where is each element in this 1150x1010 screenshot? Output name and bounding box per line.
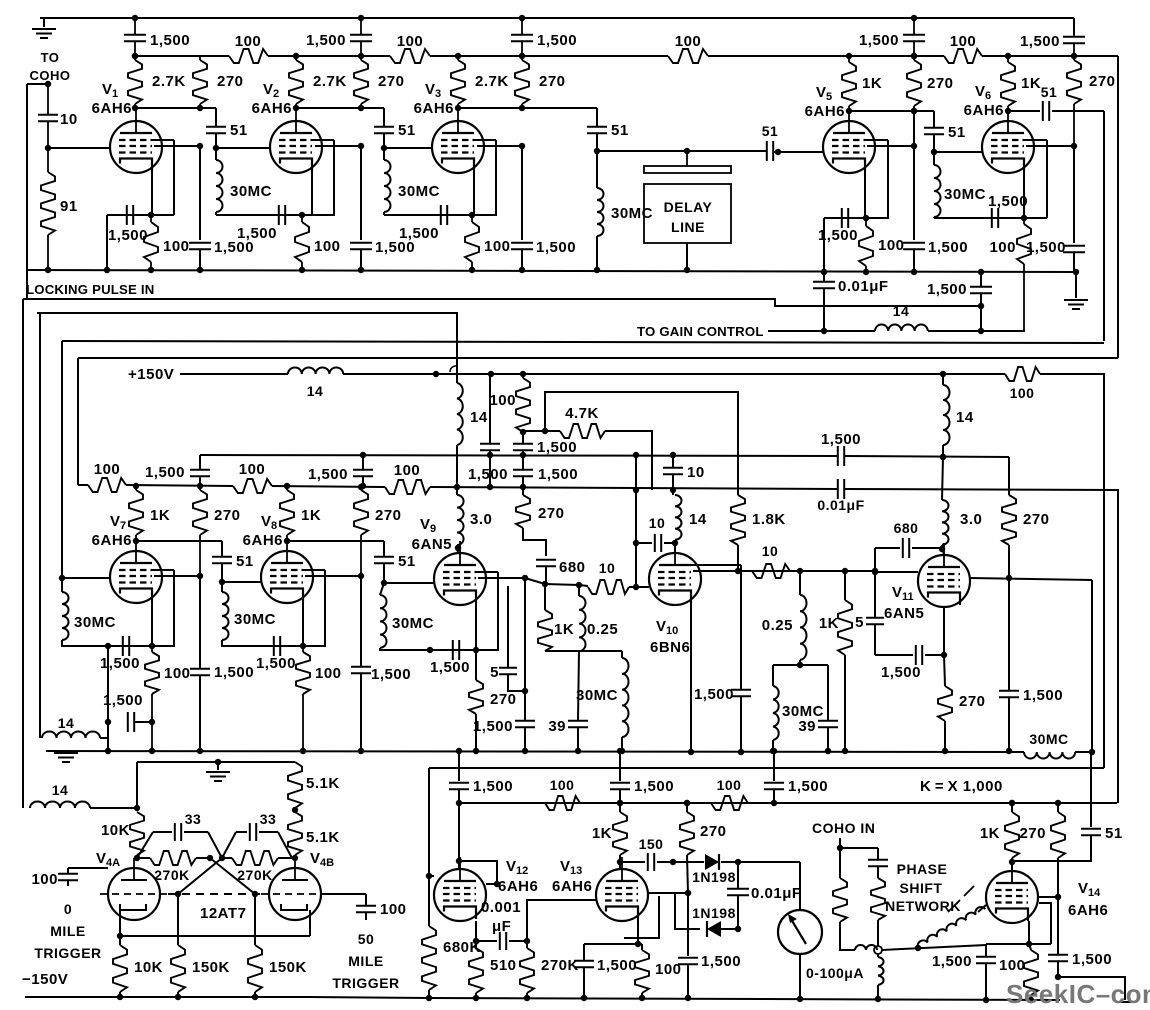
wire M2 screen rail (78, 485, 1118, 803)
resistor 100 (803 row a) (545, 777, 580, 810)
svg-text:TO: TO (41, 50, 60, 65)
svg-text:1,500: 1,500 (694, 686, 734, 703)
svg-text:30MC: 30MC (1029, 731, 1068, 747)
label LOCKING PULSE IN (26, 282, 155, 297)
label V3 6AH6 (414, 81, 454, 117)
inductor 30MC (V9 output) (576, 651, 629, 754)
svg-text:100: 100 (163, 238, 190, 255)
svg-text:1,500: 1,500 (818, 227, 858, 244)
capacitor 1,500 (gain line) (927, 269, 992, 309)
svg-text:2.7K: 2.7K (313, 73, 347, 90)
ground (top right) (1064, 272, 1088, 309)
svg-text:33: 33 (260, 811, 277, 827)
wire V9 plate bracket (476, 572, 498, 650)
capacitor 1,500 (B+ bypass right) (1020, 33, 1085, 59)
capacitor 1,500 (B+ bypass x=361) (306, 15, 372, 59)
ground (flip-flop) (206, 762, 230, 781)
svg-text:1,500: 1,500 (468, 466, 508, 483)
svg-text:0.25: 0.25 (762, 617, 793, 634)
node phase-shift crossing (874, 946, 882, 954)
svg-text:39: 39 (548, 718, 566, 735)
svg-text:1,500: 1,500 (1020, 33, 1060, 50)
svg-text:1N198: 1N198 (692, 905, 736, 921)
capacitor 1,500 (V1 cathode) (108, 205, 148, 244)
svg-text:0.01μF: 0.01μF (817, 497, 864, 513)
capacitor 1,500 (V2 cathode) (237, 205, 285, 242)
svg-text:51: 51 (762, 123, 779, 139)
svg-text:6AH6: 6AH6 (1068, 902, 1108, 919)
capacitor 1,500 (x=361 mid lower) (351, 576, 411, 754)
wire V4 cathode line (117, 910, 310, 939)
svg-text:100: 100 (950, 33, 977, 50)
svg-text:1,500: 1,500 (597, 957, 637, 974)
resistor 100 (rail V2-V3) (390, 33, 430, 63)
resistor 270 (x=361 mid) (354, 484, 402, 576)
svg-text:2.7K: 2.7K (152, 73, 186, 90)
capacitor 51 (V6 output) (1008, 84, 1104, 121)
inductor 30MC (V10 output) (770, 686, 824, 754)
svg-text:1K: 1K (1021, 75, 1041, 92)
capacitor 39 (V10) (798, 718, 838, 754)
svg-text:100: 100 (394, 462, 421, 479)
svg-text:0.25: 0.25 (587, 621, 618, 638)
capacitor 33 (right) (222, 811, 292, 858)
resistor 100 (V3 cathode) (465, 215, 511, 273)
svg-text:51: 51 (230, 122, 248, 139)
svg-text:1,500: 1,500 (1026, 239, 1066, 256)
capacitor 680 (V11 neutralizing) (875, 520, 942, 571)
wire gain line to cathode bus (928, 306, 1025, 334)
svg-text:150: 150 (639, 836, 664, 852)
inductor 0.25 (V10 load) (762, 571, 807, 668)
svg-text:270: 270 (214, 507, 241, 524)
capacitor (COHO) (868, 848, 888, 878)
capacitor 51 (V6 coupling) (924, 111, 966, 155)
wire V7 cathode row (108, 645, 175, 647)
svg-text:6AH6: 6AH6 (243, 532, 283, 549)
wire V9 grid (384, 582, 434, 584)
svg-text:TRIGGER: TRIGGER (34, 945, 101, 961)
wire rail extension to right bus (1074, 55, 1118, 57)
wire V1 grid-feed (135, 107, 216, 109)
capacitor 51 (V5 coupling) (762, 123, 779, 161)
wire V3 grid (384, 147, 432, 149)
capacitor 1,500 (584 col) (574, 944, 637, 1001)
wire V1 grid (48, 147, 110, 149)
resistor 100 (V14 cathode) (999, 944, 1038, 1003)
wire plate line (768) (429, 767, 1104, 769)
svg-text:6AN5: 6AN5 (412, 536, 452, 553)
svg-text:270K: 270K (154, 867, 189, 883)
resistor 270 (x=200 mid) (193, 483, 241, 576)
svg-text:680: 680 (894, 520, 919, 536)
capacitor 1,500 (x=522 bypass) (511, 145, 576, 273)
capacitor 1,500 (B+ bypass x=135) (124, 15, 190, 59)
tube V10 6BN6 (649, 541, 701, 605)
label V13 6AH6 (552, 858, 592, 895)
svg-text:270: 270 (927, 75, 954, 92)
svg-text:−150V: −150V (22, 971, 68, 988)
svg-text:1K: 1K (554, 621, 574, 638)
svg-text:4.7K: 4.7K (565, 405, 599, 422)
svg-text:1K: 1K (301, 507, 321, 524)
wire V10 load bracket (773, 660, 828, 720)
diode 1N198 (upper) (692, 854, 800, 885)
label V4A (96, 850, 120, 869)
svg-text:LINE: LINE (671, 219, 705, 235)
svg-text:1K: 1K (819, 615, 839, 632)
svg-text:270K: 270K (237, 867, 272, 883)
resistor 1K (V10 load) (819, 571, 852, 754)
wire V7 grid (59, 341, 110, 581)
svg-text:14: 14 (470, 409, 488, 426)
inductor 30MC (V6 tank) (934, 152, 986, 217)
wire V9 load bottoms (545, 650, 622, 652)
svg-text:6AH6: 6AH6 (414, 100, 454, 117)
resistor 10 (V10 grid stopper) (588, 560, 649, 594)
inductor 14 (+150V feed) (288, 368, 343, 400)
svg-text:270: 270 (490, 691, 517, 708)
resistor 10 (V10 out) (752, 543, 790, 578)
svg-text:1,500: 1,500 (788, 778, 828, 795)
svg-text:1,500: 1,500 (145, 464, 185, 481)
svg-text:1,500: 1,500 (306, 32, 346, 49)
wire delay line row (597, 148, 762, 154)
wire COHO stub (837, 838, 878, 851)
svg-text:100: 100 (655, 961, 682, 978)
delay line box (644, 184, 731, 243)
capacitor 1,500 (series in M1) (821, 431, 861, 466)
wire bus L4 (78, 56, 1118, 358)
svg-text:1,500: 1,500 (927, 281, 967, 298)
ground (top left, TO COHO) (32, 18, 56, 38)
label V2 6AH6 (252, 81, 292, 117)
resistor 270K (left) (137, 851, 213, 883)
label 50 MILE TRIGGER (332, 931, 399, 991)
resistor 270K (right) (219, 851, 295, 883)
svg-text:0-100μA: 0-100μA (806, 965, 864, 981)
resistor 1.8K (731, 495, 786, 574)
wire V3 output tap (477, 143, 525, 149)
capacitor 1,500 (x=200 mid lower) (190, 576, 254, 754)
resistor 270 (x=361) (354, 56, 405, 111)
label COHO IN (812, 820, 875, 836)
svg-text:270: 270 (1023, 511, 1050, 528)
svg-text:0.01μF: 0.01μF (838, 278, 889, 295)
node V6 cathode (1021, 215, 1027, 221)
label -150V (22, 971, 68, 988)
svg-text:680: 680 (559, 559, 586, 576)
capacitor 150 (620, 836, 704, 871)
capacitor 1,500 (687 col) (678, 893, 741, 1001)
resistor 100 (+150V right) (1005, 367, 1040, 401)
wire 4.7K upper loop (545, 392, 738, 495)
wire V1 plate bracket/riser (152, 140, 174, 215)
svg-text:1,500: 1,500 (928, 239, 968, 256)
capacitor 1,500 (V7 cathode) (100, 636, 140, 672)
capacitor (490 col) (480, 374, 500, 490)
wire V14 grid (978, 905, 986, 912)
wire +150V right drop (1040, 374, 1104, 768)
svg-text:10K: 10K (101, 822, 130, 839)
svg-text:1,500: 1,500 (859, 32, 899, 49)
inductor 0.25 (V9 load) (579, 585, 618, 651)
wire screen rail (803) (459, 800, 1117, 806)
svg-text:51: 51 (398, 122, 416, 139)
svg-text:SHIFT: SHIFT (900, 880, 943, 896)
svg-text:51: 51 (948, 124, 966, 141)
resistor 680K (422, 926, 481, 1001)
wire 14 feed (22 col) (23, 299, 140, 811)
svg-text:270: 270 (378, 73, 405, 90)
wire x636 column (633, 455, 639, 590)
inductor 30MC (V8 tank) (222, 582, 276, 646)
resistor 100 (V8 cathode) (296, 646, 342, 754)
svg-text:1,500: 1,500 (536, 239, 576, 256)
capacitor 1,500 (B+ bypass x=522) (511, 15, 577, 59)
tube V4B 12AT7b (261, 858, 329, 920)
wire V3 cathode row (384, 212, 497, 215)
inductor 14 (V7 gnd) (40, 313, 108, 738)
svg-text:270: 270 (959, 693, 986, 710)
wire V13 cathode (584, 917, 642, 947)
capacitor 1,500 (V7 second) (103, 643, 155, 732)
inductor (COHO small) (855, 945, 877, 950)
resistor 1K (V6 plate load) (1001, 53, 1041, 114)
wire V12 plate feed (456, 803, 500, 887)
wire V2 cathode row (216, 212, 335, 215)
svg-text:6AH6: 6AH6 (552, 878, 592, 895)
svg-text:30MC: 30MC (398, 183, 440, 200)
svg-text:30MC: 30MC (234, 611, 276, 628)
wire bus L3 (62, 341, 1104, 343)
resistor 91 (41, 148, 78, 273)
svg-text:MILE: MILE (348, 953, 383, 969)
svg-text:6AN5: 6AN5 (884, 605, 924, 622)
node V1 cathode (148, 212, 154, 218)
wire V2 plate bracket/riser (312, 140, 334, 215)
resistor 1K (V5 plate load) (842, 53, 882, 114)
wire V11 plate row (970, 575, 1095, 755)
svg-text:1,500: 1,500 (108, 227, 148, 244)
resistor 2.7K (plate load x=135) (128, 53, 186, 111)
svg-text:1,500: 1,500 (214, 239, 254, 256)
svg-text:270K: 270K (541, 957, 579, 974)
svg-text:1.8K: 1.8K (752, 511, 786, 528)
wire phase shift row (882, 945, 986, 951)
svg-text:0.01μF: 0.01μF (751, 885, 802, 902)
svg-text:6AH6: 6AH6 (252, 100, 292, 117)
capacitor 1,500 (x=914 bypass) (903, 111, 968, 275)
inductor 3.0 (V11 plate) (939, 457, 983, 555)
svg-text:1,500: 1,500 (537, 439, 577, 456)
arrow (variable) (948, 886, 974, 912)
capacitor 1,500 (V10 bypass) (694, 565, 751, 755)
svg-text:1,500: 1,500 (100, 655, 140, 672)
wire V7 plate bracket (152, 570, 200, 646)
resistor 1K (V14 plate) (980, 800, 1019, 870)
svg-text:1,500: 1,500 (821, 431, 861, 448)
inductor 14 (V11 plate) (940, 374, 974, 460)
svg-text:1,500: 1,500 (214, 664, 254, 681)
wire left input bus (26, 84, 28, 299)
resistor 5.1K (lower) (288, 812, 340, 861)
svg-text:14: 14 (52, 782, 69, 798)
tube V7 6AH6 (110, 539, 162, 603)
capacitor 1,500 (x=361 bypass) (350, 145, 415, 273)
svg-text:1,500: 1,500 (371, 666, 411, 683)
wire V10 cathode (688, 603, 694, 755)
svg-text:100: 100 (484, 238, 511, 255)
inductor (phase shift diagonal) (916, 905, 986, 948)
inductor 14 (gain line) (875, 303, 928, 331)
wire +150V rail (180, 371, 1005, 377)
svg-text:150K: 150K (269, 959, 307, 976)
tube V3 6AH6 (432, 109, 484, 173)
label V7 6AH6 (92, 513, 132, 549)
svg-text:100: 100 (397, 33, 424, 50)
resistor 100 (803 row b) (711, 777, 748, 810)
svg-text:5: 5 (490, 664, 499, 681)
svg-text:0: 0 (64, 901, 72, 917)
wire V9 plate lead (455, 545, 461, 553)
wire right bus drop from top rail (1073, 18, 1075, 35)
resistor 270K (520, 941, 579, 1001)
svg-text:100: 100 (989, 239, 1016, 256)
svg-text:30MC: 30MC (392, 615, 434, 632)
tube V9 6AN5 (434, 541, 486, 605)
capacitor 1,500 (V5 cathode) (818, 208, 858, 244)
capacitor 1,500 (V11 bypass) (999, 578, 1063, 754)
wire upper plate line (137, 759, 295, 808)
wire V11 grid (875, 571, 918, 573)
svg-text:51: 51 (1105, 825, 1123, 842)
resistor 1K (V9 load) (538, 584, 574, 651)
wire V8 grid (222, 581, 261, 583)
capacitor 1,500 (620 col) (610, 748, 674, 803)
resistor 1K (V7 plate load) (129, 483, 170, 544)
svg-text:1K: 1K (150, 507, 170, 524)
svg-text:91: 91 (60, 198, 78, 215)
tube V14 6AH6 (986, 859, 1038, 923)
label K = X 1,000 (920, 778, 1003, 795)
capacitor 51 (V2 coupling) (206, 108, 248, 151)
inductor 30MC (delay line shunt) (594, 151, 653, 273)
resistor 270 (V13) (680, 800, 727, 896)
svg-text:SeekIC–com: SeekIC–com (1006, 979, 1150, 1009)
label V5 6AH6 (805, 84, 845, 120)
svg-text:51: 51 (611, 122, 629, 139)
capacitor 1,500 (774 col) (764, 748, 828, 803)
label +150V (128, 366, 174, 383)
svg-text:6AH6: 6AH6 (92, 532, 132, 549)
svg-text:1,500: 1,500 (701, 953, 741, 970)
node V5 cathode (863, 215, 869, 221)
label V9 6AN5 (412, 516, 452, 553)
svg-text:51: 51 (1041, 84, 1058, 100)
svg-text:COHO: COHO (30, 68, 71, 83)
svg-text:100: 100 (1010, 385, 1035, 401)
resistor 150K (b) (248, 894, 307, 1000)
svg-text:30MC: 30MC (74, 614, 116, 631)
wire V6 output tap (1026, 145, 1074, 147)
svg-text:1,500: 1,500 (538, 466, 578, 483)
wire V12 cathode (473, 921, 479, 944)
tube V13 6AH6 (596, 857, 648, 921)
wire cross-couple right (175, 858, 222, 897)
svg-text:1,500: 1,500 (634, 778, 674, 795)
svg-text:30MC: 30MC (576, 687, 618, 704)
wire cross-couple left (210, 858, 258, 897)
tube V4A 12AT7a (100, 858, 168, 920)
resistor 100 (V5 cathode) (859, 218, 905, 275)
tube V5 6AH6 (823, 109, 875, 173)
svg-text:PHASE: PHASE (897, 861, 948, 877)
resistor 270 (V11 plate) (1002, 457, 1050, 578)
wire V8 cathode row (242, 645, 326, 647)
svg-text:10: 10 (60, 111, 78, 128)
resistor 100 (M2 V7) (88, 461, 126, 492)
inductor 3.0 (V9 plate) (457, 487, 492, 545)
wire V6 grid (934, 151, 982, 153)
resistor (COHO right) (871, 878, 885, 946)
wire bus L1 (23, 299, 981, 306)
resistor 2.7K (plate load x=296) (289, 53, 347, 111)
svg-text:6BN6: 6BN6 (650, 639, 690, 656)
svg-text:270: 270 (538, 505, 565, 522)
wire V6 cathode row (934, 217, 1047, 218)
svg-text:270: 270 (217, 73, 244, 90)
label V4B (310, 850, 334, 869)
inductor (phase shift shunt) (875, 954, 884, 1002)
wire V10 plate row (691, 565, 878, 574)
svg-text:270: 270 (1019, 825, 1046, 842)
capacitor 1,500 (523 upper) (513, 432, 577, 458)
svg-text:14: 14 (307, 383, 324, 399)
svg-text:LOCKING PULSE IN: LOCKING PULSE IN (26, 282, 155, 297)
svg-text:0.001: 0.001 (481, 899, 521, 916)
svg-text:100: 100 (164, 665, 191, 682)
svg-text:100: 100 (550, 777, 575, 793)
svg-text:100: 100 (717, 777, 742, 793)
svg-text:1K: 1K (592, 825, 612, 842)
resistor 510 (469, 941, 517, 1001)
svg-text:1N198: 1N198 (692, 869, 736, 885)
svg-text:51: 51 (398, 553, 416, 570)
svg-text:1,500: 1,500 (256, 655, 296, 672)
wire V6 output to bus (1103, 111, 1105, 341)
capacitor 1,500 (V6 right bypass) (1026, 146, 1085, 275)
label V12 6AH6 (498, 858, 538, 895)
svg-text:10: 10 (687, 464, 705, 481)
resistor 100 (V6 cathode) (989, 218, 1031, 330)
capacitor 33 (left) (137, 811, 222, 858)
svg-text:MILE: MILE (50, 923, 85, 939)
wire V12 grid (426, 873, 434, 879)
svg-text:100: 100 (235, 33, 262, 50)
tube V1 6AH6 (110, 109, 162, 173)
resistor 270 (523 col) (516, 487, 565, 556)
svg-text:10: 10 (649, 515, 666, 531)
svg-text:270: 270 (700, 823, 727, 840)
svg-text:1K: 1K (980, 825, 1000, 842)
inductor 30MC (V9 tank) (380, 583, 434, 650)
capacitor 51 (V9 coupling) (287, 541, 416, 586)
svg-text:30MC: 30MC (944, 186, 986, 203)
svg-text:DELAY: DELAY (664, 199, 713, 215)
label V14 6AH6 (1068, 880, 1108, 919)
resistor 10K (V4A grid) (101, 812, 144, 861)
